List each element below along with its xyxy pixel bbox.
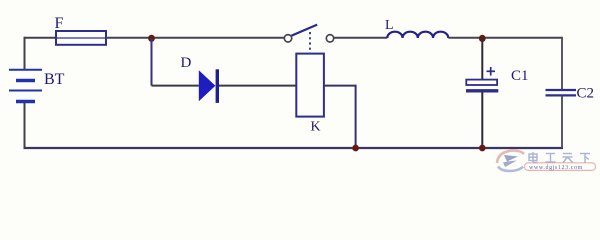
- wire C1 branch upper: [481, 38, 483, 79]
- dotted mechanical link switch to coil: [309, 32, 311, 53]
- wire diode cathode to relay coil: [219, 85, 296, 87]
- wire switch to inductor: [334, 37, 388, 39]
- junction node B (coil return on bottom rail): [352, 145, 359, 152]
- wire fuse to switch: [106, 37, 284, 39]
- wire right vertical upper (to C2): [561, 37, 563, 90]
- junction node D (C1 return on bottom rail): [479, 145, 486, 152]
- junction node C (L / C1 node): [479, 35, 486, 42]
- watermark text dian-gong-tian-xia: [529, 152, 590, 163]
- wire junction A down: [151, 38, 153, 86]
- capacitor C2: [546, 90, 577, 95]
- wire right vertical lower (C2 to bottom rail): [561, 96, 563, 149]
- svg-text:BT: BT: [44, 71, 65, 88]
- watermark url box: [525, 163, 596, 171]
- svg-text:K: K: [311, 120, 321, 135]
- watermark logo: [497, 151, 524, 172]
- wire C1 lower: [481, 93, 483, 149]
- inductor L: [387, 32, 448, 38]
- svg-text:L: L: [385, 18, 394, 33]
- diode D: [199, 69, 219, 103]
- wire top-left horizontal (battery + to fuse): [24, 37, 57, 39]
- battery BT: [9, 70, 42, 102]
- wire relay coil right to bottom rail: [324, 86, 356, 147]
- svg-text:F: F: [55, 15, 64, 32]
- svg-text:D: D: [181, 55, 192, 71]
- wire to diode anode: [152, 85, 199, 87]
- svg-text:C1: C1: [511, 68, 529, 84]
- svg-text:C2: C2: [577, 86, 595, 102]
- capacitor C1 polarity plus: [487, 67, 496, 76]
- svg-text:www.dgjs123.com: www.dgjs123.com: [529, 165, 583, 171]
- switch contact right: [326, 35, 333, 42]
- capacitor C1: [466, 80, 498, 91]
- relay coil K: [296, 54, 324, 117]
- wire left vertical upper (top rail down to battery): [24, 37, 26, 70]
- fuse F: [56, 31, 106, 45]
- wire left vertical lower (battery - down to bottom rail): [24, 103, 26, 148]
- switch blade: [291, 25, 317, 36]
- bottom rail wire: [24, 147, 564, 149]
- wire inductor to top right corner: [448, 37, 562, 39]
- junction node A (fuse/diode branch): [148, 35, 155, 42]
- switch contact left: [284, 35, 291, 42]
